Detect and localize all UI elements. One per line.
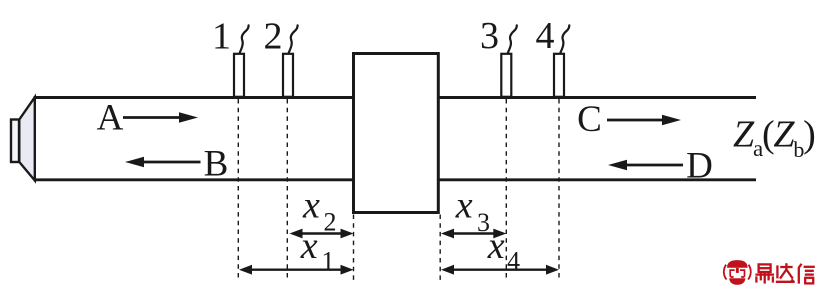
dashed line at microphone 2 (286, 99, 288, 280)
dashed line at microphone 3 (505, 99, 507, 280)
sample box (354, 54, 439, 213)
tube top wall (34, 96, 756, 99)
dashed line at microphone 4 (558, 99, 560, 280)
cable of microphone 1 (240, 25, 249, 52)
dashed line at box right edge (439, 215, 441, 281)
svg-text:1: 1 (322, 246, 335, 275)
svg-text:3: 3 (480, 15, 499, 57)
dashed line at box left edge (353, 215, 355, 281)
tube bottom wall (34, 178, 756, 181)
svg-text:4: 4 (507, 246, 520, 275)
wave arrow A (123, 112, 198, 122)
wave arrow D (608, 160, 683, 170)
microphone 1 (234, 54, 244, 97)
cable of microphone 2 (289, 25, 298, 52)
svg-text:x: x (455, 185, 473, 227)
watermark logo icon (724, 260, 751, 285)
cable of microphone 4 (561, 25, 570, 52)
svg-text:B: B (204, 144, 229, 185)
dimension arrow x1 (239, 265, 354, 275)
svg-text:1: 1 (212, 16, 231, 58)
svg-text:2: 2 (264, 16, 283, 58)
wave arrow C (607, 115, 681, 125)
dimension arrow x4 (441, 265, 559, 275)
loudspeaker magnet (11, 120, 19, 163)
svg-text:x: x (300, 225, 318, 267)
svg-text:C: C (577, 99, 602, 140)
dimension arrow x3 (441, 229, 506, 239)
watermark character da (776, 263, 794, 282)
svg-text:2: 2 (324, 208, 337, 237)
dimension arrow x2 (290, 229, 354, 239)
svg-text:Za(Zb): Za(Zb) (733, 114, 815, 163)
svg-text:D: D (686, 146, 713, 187)
svg-text:4: 4 (536, 15, 555, 57)
wave arrow B (125, 157, 201, 167)
watermark character xin (799, 264, 815, 284)
loudspeaker cone (19, 97, 35, 180)
svg-text:x: x (302, 185, 320, 227)
dashed line at microphone 1 (237, 99, 239, 280)
svg-text:x: x (487, 225, 505, 267)
svg-text:A: A (97, 98, 124, 139)
microphone 2 (283, 54, 293, 97)
microphone 3 (501, 54, 511, 97)
watermark character ding (755, 264, 774, 283)
cable of microphone 3 (508, 25, 517, 52)
microphone 4 (554, 54, 564, 97)
